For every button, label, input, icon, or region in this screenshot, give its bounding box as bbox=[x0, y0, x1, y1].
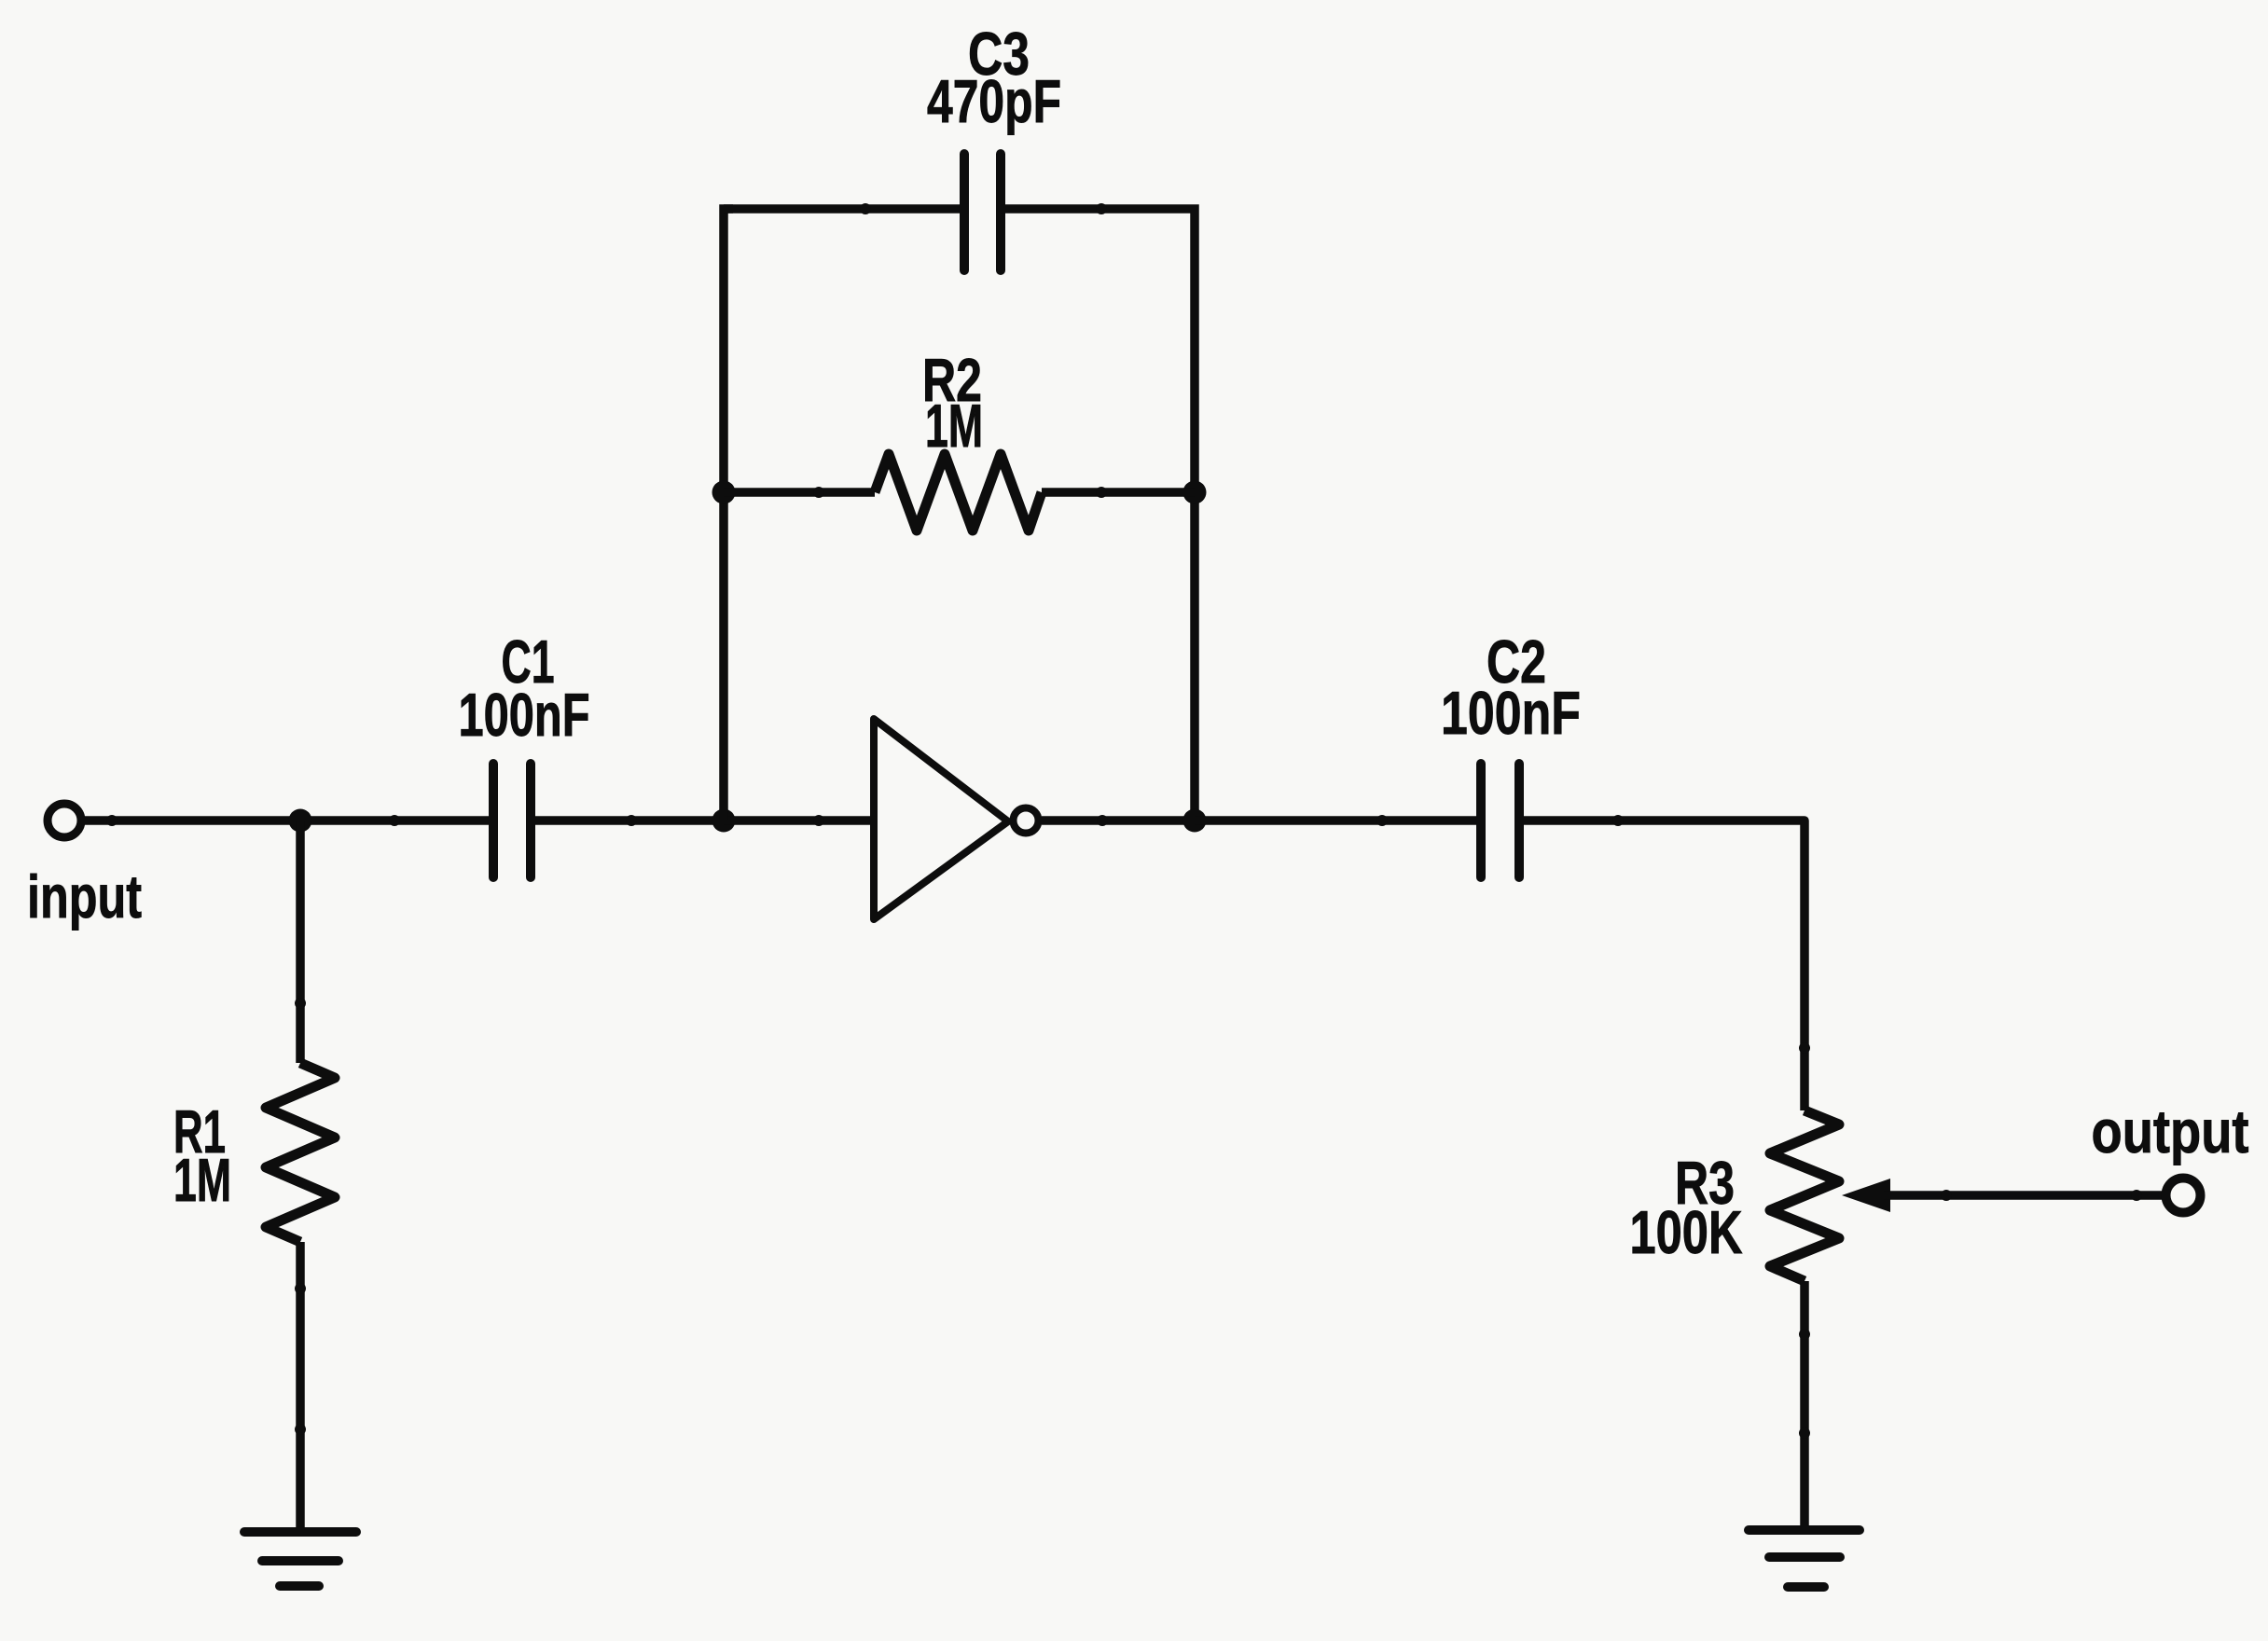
ground (left) bbox=[244, 1532, 356, 1586]
svg-text:output: output bbox=[2092, 1097, 2249, 1165]
potentiometer wiper arrow bbox=[1842, 1179, 2165, 1212]
wire: R2 right lead bbox=[1042, 487, 1195, 498]
node B (inverter input junction) bbox=[712, 809, 736, 833]
resistor R2 bbox=[875, 454, 1042, 531]
input terminal bbox=[48, 804, 81, 837]
node: R2 left junction bbox=[712, 481, 736, 504]
svg-text:100K: 100K bbox=[1630, 1198, 1743, 1266]
svg-text:input: input bbox=[27, 862, 142, 931]
wire: input terminal to C1 bbox=[85, 815, 490, 826]
resistor R1 bbox=[266, 1063, 335, 1242]
svg-text:1M: 1M bbox=[173, 1146, 231, 1214]
output terminal bbox=[2166, 1179, 2201, 1213]
wire: R2 left lead bbox=[724, 487, 875, 498]
node C (inverter output junction) bbox=[1183, 809, 1207, 833]
svg-text:470pF: 470pF bbox=[927, 67, 1061, 135]
wire: C1 to node B bbox=[534, 815, 724, 826]
capacitor C2 bbox=[1481, 764, 1519, 877]
capacitor C1 bbox=[493, 764, 531, 877]
node A (input junction) bbox=[289, 809, 312, 833]
wire: node A down to R1 bbox=[295, 820, 306, 1063]
svg-text:1M: 1M bbox=[925, 392, 983, 460]
resistor R3 (potentiometer) bbox=[1770, 1110, 1839, 1281]
wire: R3 to ground bbox=[1799, 1281, 1810, 1530]
inverter U1 bbox=[874, 719, 1039, 919]
capacitor C3 bbox=[964, 154, 1001, 270]
wire: C2 to R3 top bbox=[1523, 815, 1810, 1110]
ground (right) bbox=[1749, 1530, 1860, 1587]
svg-text:100nF: 100nF bbox=[459, 681, 590, 749]
node: R2 right junction bbox=[1183, 481, 1207, 504]
wire: node C to C2 bbox=[1195, 815, 1477, 826]
wire: left feedback vertical bbox=[724, 209, 733, 820]
wire: right feedback vertical lower bbox=[1190, 492, 1199, 820]
wire: top feedback left segment bbox=[724, 203, 964, 214]
wire: R1 to ground bbox=[295, 1242, 306, 1532]
wire: top feedback right segment bbox=[1001, 203, 1195, 492]
svg-text:100nF: 100nF bbox=[1441, 679, 1581, 747]
wire: node B to inverter input bbox=[724, 815, 874, 826]
wire: inverter output to node C bbox=[1042, 815, 1195, 826]
